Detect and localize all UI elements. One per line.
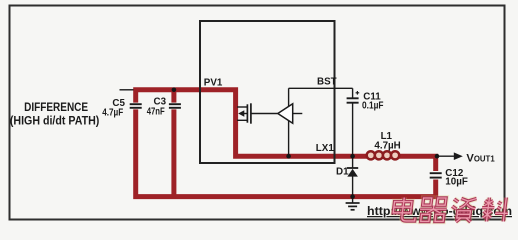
svg-text:4.7µH: 4.7µH (374, 140, 400, 151)
svg-text:LX1: LX1 (316, 143, 335, 154)
svg-text:PV1: PV1 (204, 77, 223, 88)
svg-text:10µF: 10µF (445, 176, 468, 187)
svg-text:4.7µF: 4.7µF (102, 107, 123, 118)
svg-text:0.1µF: 0.1µF (362, 100, 384, 111)
svg-text:D1: D1 (336, 166, 349, 177)
svg-text:VOUT1: VOUT1 (466, 153, 495, 165)
svg-text:BST: BST (317, 77, 337, 88)
svg-text:DIFFERENCE: DIFFERENCE (24, 102, 88, 114)
svg-text:47nF: 47nF (147, 106, 165, 117)
svg-text:(HIGH di/dt PATH): (HIGH di/dt PATH) (10, 116, 100, 128)
